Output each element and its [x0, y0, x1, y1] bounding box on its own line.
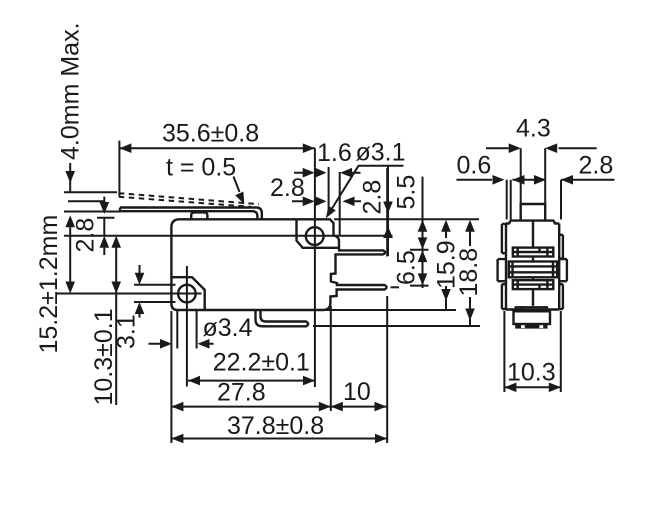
right view center stem upper — [532, 221, 534, 248]
arrowhead t=0.5 leader — [235, 192, 244, 205]
terminal 3 bent — [256, 310, 309, 326]
arrowheads 10.3 right view — [504, 383, 516, 393]
svg-text:37.8±0.8: 37.8±0.8 — [227, 412, 324, 440]
mounting hole top — [306, 227, 324, 245]
extension lever bottom left — [64, 211, 120, 213]
extension body right corner — [560, 180, 562, 220]
arrowheads o3.4 — [160, 339, 172, 349]
tick 5.5 bottom — [410, 249, 429, 251]
mounting hole bottom — [178, 285, 196, 303]
tick body top left — [97, 217, 115, 219]
arrowheads 18.8 — [465, 220, 475, 232]
dim 35.6 line — [119, 147, 314, 149]
extension terminal tip — [386, 168, 388, 443]
tick lever free tip — [64, 191, 117, 193]
right view terminal bar 1 — [513, 248, 554, 257]
dim 22.2 line — [188, 380, 315, 382]
arrowheads 37.8 — [171, 434, 183, 444]
arrowhead o3.1 leader — [326, 206, 336, 218]
dim 5.5 6.5 line — [422, 177, 424, 288]
extension 10.3 right — [560, 311, 562, 392]
dim 4.3 line — [486, 147, 597, 149]
dim o3.4 line — [149, 343, 214, 345]
dim t=0.5 leader — [234, 177, 240, 193]
dim 2.8 left line — [103, 197, 105, 255]
arrowheads 2.8 left — [100, 202, 110, 214]
arrowheads 10 — [331, 402, 343, 412]
dim 0.6 2.8 line — [457, 179, 615, 181]
arrowheads 5.5 — [418, 220, 428, 232]
dash after terminal2 — [391, 286, 400, 288]
svg-text:t = 0.5: t = 0.5 — [166, 154, 236, 182]
reference line body top extended — [334, 218, 479, 220]
arrowheads 3.1 — [135, 273, 145, 285]
right view center stem 4 — [532, 289, 534, 306]
svg-text:6.5: 6.5 — [393, 250, 421, 285]
extension body right edge lower — [330, 306, 332, 411]
extension 2.8 right upper — [339, 172, 341, 236]
dim 18.8 line — [469, 231, 471, 326]
extension body left edge — [170, 311, 172, 443]
right view tab right upper — [559, 235, 563, 259]
right view body top edge — [510, 221, 555, 224]
right view terminal bar 2 — [509, 262, 557, 278]
svg-text:3.1: 3.1 — [113, 314, 141, 349]
dim 27.8 and 10 line — [171, 406, 386, 408]
extension 10.3 left — [503, 311, 505, 392]
reference line terminal3 bottom extended — [313, 325, 480, 327]
reference line body bottom extended — [323, 309, 456, 311]
tick mid lever — [68, 200, 104, 202]
arrowheads dim 35.6 — [119, 143, 131, 153]
arrowheads 2.8 right view — [534, 175, 546, 185]
right view tab right lower — [559, 284, 563, 309]
right view center stem 3 — [532, 277, 534, 280]
arrowheads 4.3 — [509, 143, 521, 153]
extension 0.6 lines — [507, 180, 511, 220]
svg-text:ø3.1: ø3.1 — [356, 139, 406, 167]
extension plunger left — [520, 148, 522, 204]
svg-text:2.8: 2.8 — [270, 174, 305, 202]
dim 37.8 line — [171, 438, 387, 440]
right view body bottom edge — [506, 308, 559, 310]
arrowheads 27.8 — [171, 402, 183, 412]
svg-text:2.8: 2.8 — [72, 218, 100, 253]
svg-text:4.0mm Max.: 4.0mm Max. — [57, 22, 85, 160]
tick hole1 tangent upper — [134, 284, 176, 286]
right view plunger — [521, 204, 546, 221]
right view body left edge — [506, 224, 510, 310]
tick 6.5 bottom — [410, 285, 429, 287]
extension hole bottom center vertical — [186, 266, 188, 387]
reference line hole top center horizontal — [64, 235, 393, 237]
right view center stem 2 — [532, 257, 534, 262]
right view tab left lower — [502, 284, 506, 309]
svg-text:ø3.4: ø3.4 — [203, 314, 253, 342]
svg-text:27.8: 27.8 — [217, 379, 266, 407]
extension 1.6 right — [328, 167, 330, 213]
svg-text:18.8: 18.8 — [455, 248, 483, 297]
svg-text:2.8: 2.8 — [579, 152, 614, 180]
svg-text:2.8: 2.8 — [359, 180, 387, 215]
extension hole top center vertical — [314, 148, 316, 387]
dim 2.8 right vertical — [387, 166, 389, 256]
right view terminal bar 4 — [516, 307, 547, 311]
extension plunger right — [544, 148, 546, 204]
right view tab right middle — [559, 259, 567, 281]
arrowheads 15.9 — [441, 220, 451, 232]
plunger bump — [191, 212, 207, 219]
extension hole2 tangent left — [176, 311, 178, 349]
dim 2.8 top line — [292, 200, 361, 202]
arrowheads 6.5 — [418, 250, 428, 262]
body outline left view — [171, 219, 386, 310]
arrowheads 0.6 — [493, 175, 505, 185]
dim o3.1 leader — [330, 166, 404, 213]
dim 10.3 line — [115, 247, 117, 405]
svg-text:10.3: 10.3 — [507, 359, 556, 387]
lever dashed free position — [119, 193, 259, 207]
right view tab left middle — [498, 259, 506, 281]
reference line hole bottom center horizontal — [56, 293, 202, 295]
svg-text:35.6±0.8: 35.6±0.8 — [162, 120, 259, 148]
dim 10.3 right line — [504, 386, 560, 388]
right view body right edge — [554, 224, 559, 310]
arrowheads dim 1.6 — [303, 168, 315, 178]
arrowheads 4.0mm — [65, 171, 75, 183]
arrowheads 22.2 — [188, 376, 200, 386]
svg-text:15.2±1.2mm: 15.2±1.2mm — [35, 215, 63, 354]
dim 4.0 15.2 line — [69, 163, 71, 282]
lever solid — [120, 208, 262, 220]
dim 1.6 line — [294, 172, 361, 174]
right view bottom block — [514, 311, 551, 324]
arrowhead 15.2 bottom — [65, 282, 75, 294]
svg-text:5.5: 5.5 — [393, 175, 421, 210]
svg-text:10: 10 — [343, 378, 371, 406]
dim 3.1 line — [139, 265, 141, 318]
extension hole2 tangent right — [196, 311, 198, 349]
svg-text:22.2±0.1: 22.2±0.1 — [213, 349, 310, 377]
svg-text:1.6: 1.6 — [317, 139, 352, 167]
right view tab left upper — [502, 224, 506, 253]
right view terminal bar 3 — [513, 280, 554, 289]
svg-text:4.3: 4.3 — [516, 115, 551, 143]
dim 15.9 line — [445, 231, 447, 309]
arrowheads 10.3 — [111, 236, 121, 248]
extension lever left end — [118, 141, 120, 197]
svg-text:0.6: 0.6 — [457, 152, 492, 180]
arrowheads dim 2.8 top — [303, 197, 315, 207]
ear contour top-right — [297, 219, 340, 248]
tick hole1 tangent lower — [134, 301, 176, 303]
ear contour bottom-left — [171, 277, 204, 310]
arrowheads 2.8 right vertical — [383, 202, 393, 214]
